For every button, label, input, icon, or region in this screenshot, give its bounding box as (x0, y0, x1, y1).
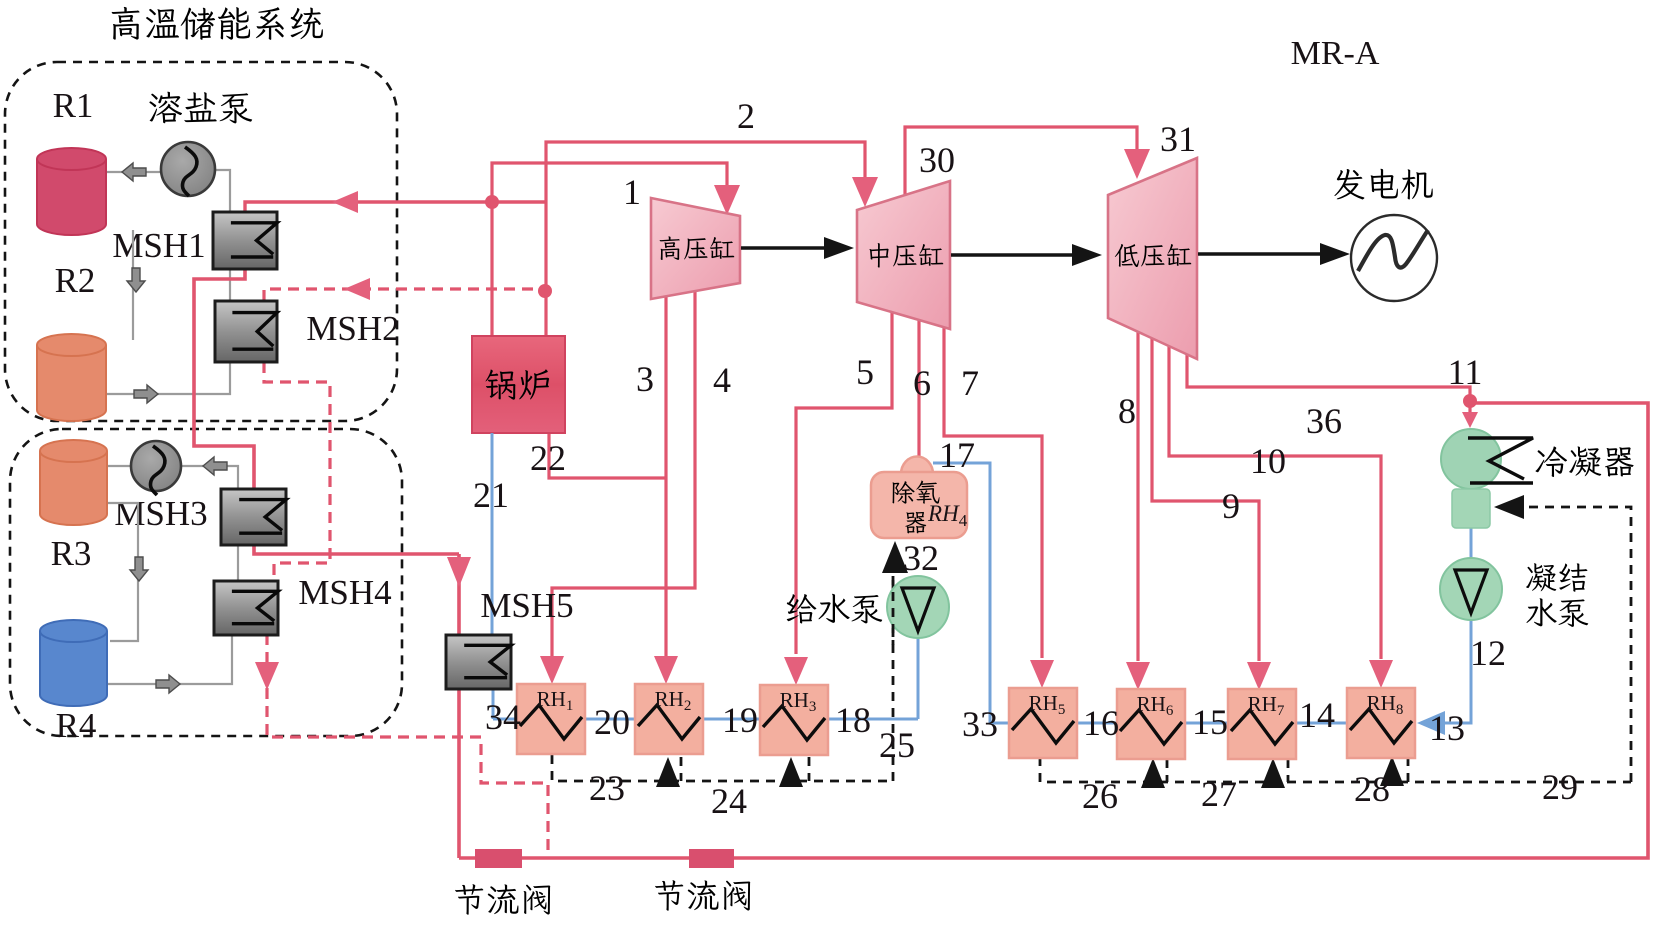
arrow red dashed down from MSH4 (255, 662, 279, 690)
svg-text:R1: R1 (53, 86, 94, 125)
wire red dashed MSH4 bottom to bottom line (267, 634, 548, 856)
tank R1 hot salt (37, 148, 106, 235)
svg-text:20: 20 (594, 702, 630, 742)
arrow black up into RH8 (1380, 756, 1404, 786)
wire black shaft IP-LP with arrow (951, 253, 1076, 257)
wire salt pump-MSH1 top (214, 170, 230, 213)
arrow red into RH5 (1030, 660, 1054, 688)
svg-text:30: 30 (919, 140, 955, 180)
wire red MSH1 charge line with arrow (245, 202, 546, 213)
svg-text:7: 7 (961, 363, 979, 403)
wire black shaft HP-IP with arrow (741, 246, 828, 250)
svg-text:17: 17 (939, 435, 975, 475)
svg-text:34: 34 (485, 697, 521, 737)
wire salt R1-R2 down (132, 230, 134, 340)
svg-text:2: 2 (737, 96, 755, 136)
heater RH5 (1009, 688, 1077, 758)
pump condensate pump 凝结水泵 (1440, 558, 1502, 620)
node junction at condenser inlet (1463, 394, 1477, 408)
label 凝结 水泵 (1526, 563, 1587, 592)
heater RH8 (1347, 688, 1415, 758)
deaerator 除氧器 RH4 (901, 457, 933, 475)
wire black dashed RH2 drain stub (680, 757, 683, 781)
container: storage box 2 (10, 429, 402, 736)
wire black dashed RH8 drain stub (1407, 757, 1410, 782)
wire red thick vertical through MSH5 to bottom line (457, 554, 461, 858)
svg-text:33: 33 (962, 704, 998, 744)
wire black shaft LP-generator with arrow (1198, 252, 1323, 256)
heater RH2 (635, 684, 703, 754)
svg-text:R3: R3 (51, 534, 92, 573)
arrow salt R2 out (134, 385, 158, 403)
svg-text:29: 29 (1542, 767, 1578, 807)
wire salt R3-R4 down (107, 503, 138, 641)
pump feed water pump 给水泵 (887, 576, 949, 638)
wire red LP extraction line 10 to RH8 (1169, 346, 1381, 659)
wire salt R1-pump (106, 171, 163, 173)
svg-text:6: 6 (913, 363, 931, 403)
svg-text:18: 18 (835, 700, 871, 740)
arrow black up into RH7 (1261, 758, 1285, 788)
wire black dashed RH5 drain (26,27,28) (1040, 757, 1631, 782)
throttle valve 2 (689, 849, 734, 868)
wire blue MSH5 out to feed line (492, 688, 495, 719)
turbine IP cylinder 中压缸 (857, 181, 950, 329)
svg-text:15: 15 (1192, 702, 1228, 742)
wire red IP exhaust line 7 to RH5 (944, 327, 1042, 658)
svg-text:R2: R2 (55, 261, 96, 300)
svg-text:23: 23 (589, 768, 625, 808)
generator 发电机 circle with sine (1351, 215, 1437, 301)
svg-text:28: 28 (1354, 769, 1390, 809)
svg-text:21: 21 (473, 475, 509, 515)
wire red MSH3 bottom to MSH5 down-line (254, 544, 459, 554)
wire blue deaerator to line 17 (933, 463, 990, 723)
arrow black 32 up into deaerator (882, 541, 908, 573)
arrow red into RH7 (1247, 662, 1271, 690)
pump molten salt pump 1 (161, 142, 215, 196)
wire black dashed line 25 up to deaerator (892, 575, 895, 781)
arrow red into RH6 (1126, 662, 1150, 690)
wire salt MSH4-MSH3 link (237, 546, 239, 580)
turbine LP cylinder 低压缸 (1108, 158, 1197, 359)
wire red IP extraction line 5 to RH3 (796, 312, 892, 654)
arrow red into RH3 (784, 657, 808, 685)
arrow salt R3 to R4 (130, 557, 148, 581)
tank R2 warm salt (37, 334, 106, 421)
label 节流阀 valve1 (455, 884, 550, 915)
wire black dashed RH3 drain stub (808, 757, 811, 781)
wire black dashed RH6 drain stub (1166, 759, 1169, 782)
wire red dashed MSH2 charge line with arrow (264, 289, 544, 301)
wire black dashed RH1 drain to RH2 (23) (552, 755, 893, 781)
svg-text:31: 31 (1160, 119, 1196, 159)
title 高温储能系统 (112, 7, 323, 40)
heat exchanger MSH2 (215, 301, 277, 362)
arrow red into IP turbine (852, 177, 878, 207)
wire red recirculation loop 36 right side (459, 403, 1648, 858)
svg-text:11: 11 (1448, 352, 1483, 392)
label 冷凝器 (1535, 446, 1633, 477)
tank R4 cold salt (40, 620, 107, 706)
node junction on boiler HP feed (485, 195, 499, 209)
svg-text:26: 26 (1082, 776, 1118, 816)
wire red MSH1 bottom to MSH3 top (194, 268, 254, 490)
wire salt R4-MSH4 bottom (107, 634, 232, 684)
arrow salt R1 to R2 (127, 268, 145, 292)
wire red HP extraction line 4 to RH1 (552, 291, 695, 663)
turbine HP cylinder 高压缸 (651, 198, 740, 299)
wire salt R3-pump2 stub (107, 465, 133, 467)
arrow black up into RH2 (656, 757, 680, 787)
arrow black up into RH6 (1141, 758, 1165, 788)
wire red IP extraction line 6 to deaerator (917, 320, 920, 456)
wire red dashed MSH2 bottom to MSH4 top (264, 362, 330, 582)
arrow red into LP turbine (1124, 149, 1150, 179)
svg-text:16: 16 (1083, 703, 1119, 743)
svg-text:25: 25 (879, 725, 915, 765)
arrow salt R4 out (156, 675, 180, 693)
heat exchanger MSH4 (214, 581, 278, 635)
svg-text:R4: R4 (56, 706, 97, 745)
arrow red into RH2 (654, 656, 678, 684)
svg-text:13: 13 (1429, 708, 1465, 748)
svg-text:MR-A: MR-A (1291, 35, 1380, 72)
label 节流阀 valve2 (655, 880, 750, 911)
svg-text:9: 9 (1222, 486, 1240, 526)
wire salt MSH3-pump2 (182, 466, 238, 489)
heater RH3 (760, 685, 828, 755)
svg-text:32: 32 (903, 538, 939, 578)
label 溶盐泵 (149, 92, 252, 124)
boiler 锅炉 (472, 336, 565, 433)
wire blue feedwater line RH5-RH8 (33,16,15,14) (990, 722, 1415, 725)
svg-text:MSH5: MSH5 (480, 586, 573, 625)
svg-text:MSH3: MSH3 (114, 494, 207, 533)
arrow salt into pump2 (203, 457, 227, 475)
svg-text:14: 14 (1299, 695, 1335, 735)
wire blue boiler downcomer line 21 into MSH5 (491, 433, 494, 636)
condenser outlet block (1452, 489, 1490, 528)
svg-text:27: 27 (1201, 774, 1237, 814)
svg-text:12: 12 (1470, 633, 1506, 673)
heater RH1 (517, 684, 585, 754)
svg-text:3: 3 (636, 359, 654, 399)
svg-text:22: 22 (530, 438, 566, 478)
pump molten salt pump 2 (131, 441, 181, 495)
svg-text:24: 24 (711, 781, 747, 821)
wire blue feed pump down (917, 637, 920, 719)
svg-text:10: 10 (1250, 441, 1286, 481)
wire black dashed RH7 drain stub (1287, 759, 1290, 782)
tank R3 warm salt (40, 440, 107, 525)
container: high-temperature storage system box 1 (5, 62, 397, 421)
heater RH6 (1117, 689, 1185, 759)
throttle valve 1 (475, 849, 522, 868)
wire red IP to LP crossover (lines 30/31) (905, 127, 1137, 195)
heater RH7 (1228, 689, 1296, 759)
svg-text:5: 5 (856, 352, 874, 392)
label 给水泵 (787, 594, 882, 624)
wire blue feedwater line RH1-RH3 (34,20,19,18) (493, 718, 918, 721)
node junction on boiler IP feed (dashed meets) (538, 284, 552, 298)
wire salt R2-MSH1 bottom (through MSH2) (106, 268, 230, 394)
wire blue condensate line 12/13 (1470, 528, 1473, 558)
svg-text:1: 1 (623, 172, 641, 212)
svg-text:MSH2: MSH2 (306, 309, 399, 348)
label 发电机 (1334, 169, 1432, 200)
wire black dashed 25 over pump (892, 576, 895, 645)
wire red boiler to HP main steam (line 1) (492, 163, 727, 336)
wire red HP extraction line 3 to RH2 and cold reheat 22 (664, 296, 667, 663)
arrow red into RH1 (540, 656, 564, 684)
arrow black left into condenser outlet (1494, 495, 1524, 519)
heat exchanger MSH5 (446, 635, 511, 689)
wire red hot reheat boiler to IP (line 2) (546, 142, 865, 336)
wire red LP extraction line 9 to RH7 (1152, 337, 1259, 661)
svg-text:4: 4 (713, 360, 731, 400)
svg-text:MSH1: MSH1 (112, 226, 205, 265)
wire red LP extraction line 8 to RH6 (1136, 332, 1139, 661)
arrow red into condenser top (1468, 405, 1471, 415)
arrow red into RH8 (1369, 660, 1393, 688)
heat exchanger MSH3 (221, 489, 286, 545)
heat exchanger MSH1 (213, 212, 277, 269)
arrow blue into RH8 (13) (1417, 711, 1445, 735)
wire red cold reheat 22 into boiler (549, 433, 666, 478)
condenser 冷凝器 (1441, 429, 1501, 489)
wire red LP exhaust line 11 to condenser (1187, 353, 1470, 398)
svg-text:19: 19 (722, 700, 758, 740)
svg-text:MSH4: MSH4 (298, 573, 391, 612)
svg-text:8: 8 (1118, 391, 1136, 431)
wire black dashed line 29 to condenser (1502, 507, 1631, 782)
arrow black up into RH3 (779, 757, 803, 787)
arrow red down into MSH5 (447, 557, 471, 587)
arrow red into HP turbine (714, 185, 740, 215)
svg-text:36: 36 (1306, 401, 1342, 441)
arrow salt into R1 (122, 163, 146, 181)
